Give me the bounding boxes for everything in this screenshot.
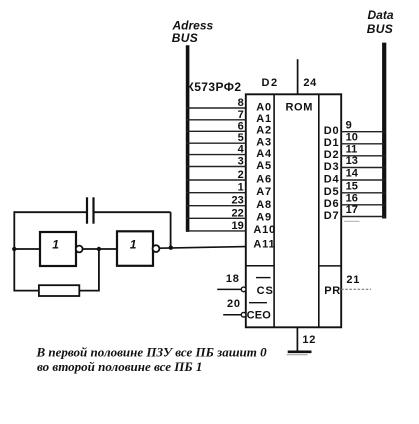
- svg-text:D0: D0: [324, 125, 340, 137]
- svg-text:4: 4: [238, 144, 245, 156]
- wire A4 pin 4: [186, 144, 246, 156]
- node junction A11: [169, 246, 173, 250]
- svg-text:13: 13: [346, 155, 358, 167]
- svg-text:К573РФ2: К573РФ2: [187, 80, 242, 94]
- ground bar: [287, 352, 312, 355]
- svg-text:15: 15: [346, 181, 358, 193]
- svg-text:8: 8: [238, 97, 244, 109]
- svg-text:23: 23: [232, 195, 244, 207]
- wire A2 pin 6: [186, 120, 246, 132]
- label Adress BUS: [172, 19, 214, 45]
- wire gate1 to gate2: [83, 248, 117, 250]
- IC D2 outline: [246, 94, 341, 327]
- svg-text:A11: A11: [253, 238, 275, 250]
- wire A3 pin 5: [186, 132, 246, 144]
- wire oscillator top: [14, 211, 170, 213]
- svg-text:17: 17: [346, 204, 358, 216]
- svg-text:22: 22: [232, 207, 244, 219]
- label CS with overline: [256, 278, 274, 297]
- wire D3 pin 13: [341, 155, 386, 167]
- svg-text:BUS: BUS: [172, 31, 198, 45]
- wire A8 pin 23: [186, 195, 246, 207]
- wire resistor to node: [79, 290, 99, 292]
- wire A1 pin 7: [186, 109, 246, 121]
- pin 18 CS wire: [217, 273, 246, 292]
- wire A9 pin 22: [186, 207, 246, 219]
- wire D7 scan artifact: [344, 220, 360, 222]
- pin 12 GND wire: [296, 327, 298, 351]
- wire D6 pin 16: [341, 193, 386, 205]
- svg-text:A2: A2: [256, 125, 272, 137]
- svg-text:5: 5: [238, 132, 244, 144]
- svg-text:A3: A3: [256, 137, 272, 149]
- svg-text:7: 7: [238, 109, 244, 121]
- wire D2 pin 11: [341, 144, 386, 156]
- wire D1 pin 10: [341, 132, 386, 144]
- wire A6 pin 2: [186, 169, 246, 181]
- svg-text:1: 1: [238, 182, 244, 194]
- wire D0 pin 9: [341, 119, 386, 131]
- svg-text:A4: A4: [256, 148, 272, 160]
- svg-text:A1: A1: [256, 113, 272, 125]
- svg-text:2: 2: [238, 169, 244, 181]
- wire A7 pin 1: [186, 182, 246, 194]
- node junction mid: [97, 247, 101, 251]
- svg-text:14: 14: [346, 168, 359, 180]
- inverter gate 2: [117, 231, 159, 265]
- svg-text:10: 10: [346, 132, 358, 144]
- svg-text:D6: D6: [324, 198, 340, 210]
- svg-text:24: 24: [303, 77, 317, 89]
- address bus line: [186, 45, 190, 232]
- wire gate1 input: [14, 248, 39, 250]
- wire D7 pin 17: [341, 204, 386, 216]
- svg-text:3: 3: [238, 156, 244, 168]
- wire A10 pin 19: [186, 220, 246, 232]
- svg-text:Data: Data: [368, 8, 394, 22]
- svg-text:A0: A0: [256, 101, 272, 113]
- pin 24 wire: [297, 59, 299, 94]
- note text: [36, 345, 268, 374]
- svg-text:D4: D4: [324, 173, 340, 185]
- wire feedback vertical: [98, 249, 100, 292]
- svg-text:11: 11: [346, 144, 358, 156]
- svg-text:12: 12: [302, 334, 316, 346]
- resistor R1: [39, 285, 79, 296]
- svg-text:ROM: ROM: [286, 102, 313, 114]
- svg-text:во второй половине все ПБ 1: во второй половине все ПБ 1: [37, 359, 202, 374]
- svg-text:19: 19: [232, 220, 244, 232]
- wire D4 pin 14: [341, 168, 386, 180]
- wire A0 pin 8: [186, 97, 246, 109]
- wire D5 pin 15: [341, 181, 386, 193]
- svg-text:A5: A5: [256, 160, 272, 172]
- svg-text:A9: A9: [256, 212, 272, 224]
- svg-text:CS: CS: [257, 285, 274, 297]
- svg-text:D2: D2: [262, 77, 279, 89]
- inverter gate 1: [40, 232, 83, 266]
- svg-text:BUS: BUS: [367, 22, 393, 36]
- data bus line: [382, 43, 386, 219]
- svg-text:D1: D1: [324, 137, 340, 149]
- svg-text:A7: A7: [256, 186, 272, 198]
- svg-text:18: 18: [226, 273, 240, 285]
- wire A5 pin 3: [186, 156, 246, 168]
- svg-text:PR: PR: [324, 285, 340, 297]
- svg-text:A8: A8: [256, 199, 272, 211]
- svg-text:D3: D3: [324, 161, 340, 173]
- svg-text:21: 21: [346, 274, 360, 286]
- node junction left: [12, 247, 16, 251]
- svg-text:16: 16: [346, 193, 358, 205]
- svg-text:D2: D2: [324, 149, 340, 161]
- wire capacitor branch vertical: [170, 212, 172, 248]
- svg-text:D5: D5: [324, 186, 340, 198]
- wire gate2 output to A11: [159, 247, 245, 249]
- svg-text:9: 9: [346, 119, 352, 131]
- wire resistor bottom left: [14, 290, 39, 292]
- svg-text:A6: A6: [256, 173, 272, 185]
- svg-text:В первой половине ПЗУ все ПБ з: В первой половине ПЗУ все ПБ зашит 0: [36, 345, 268, 360]
- svg-text:6: 6: [238, 120, 244, 132]
- capacitor C1: [87, 197, 94, 223]
- svg-text:A10: A10: [253, 224, 276, 236]
- pin 20 CEO wire: [223, 298, 246, 317]
- svg-text:CEO: CEO: [247, 310, 272, 322]
- svg-text:20: 20: [227, 298, 241, 310]
- svg-text:1: 1: [52, 238, 59, 252]
- svg-text:1: 1: [130, 238, 137, 252]
- label CEO with overline: [247, 303, 272, 322]
- label Data BUS: [367, 8, 394, 36]
- svg-text:D7: D7: [324, 210, 340, 222]
- pin 21 PR wire: [341, 274, 371, 289]
- wire left vertical: [13, 211, 15, 291]
